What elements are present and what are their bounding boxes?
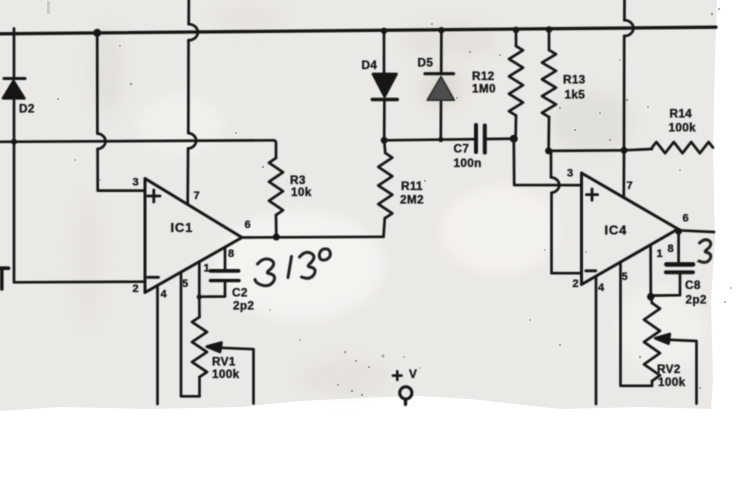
svg-text:7: 7 xyxy=(194,190,200,202)
node: IC4 pin1 / C8 / RV2 xyxy=(647,293,655,301)
wire: RV1 bottom lead xyxy=(198,377,201,396)
resistor R14 zigzag xyxy=(652,142,713,153)
wire: IC4 pin1 stub xyxy=(649,247,652,297)
svg-text:5: 5 xyxy=(182,278,188,290)
svg-text:D2: D2 xyxy=(19,101,35,115)
+V plus sign xyxy=(393,371,402,380)
svg-text:R13: R13 xyxy=(563,72,586,86)
svg-text:100k: 100k xyxy=(212,367,240,381)
wire: D2 branch vertical x=14 rail to pin2 loop xyxy=(13,29,16,283)
node: rail / x=97 vertical xyxy=(93,29,101,37)
node: rail / R12 xyxy=(513,27,520,34)
svg-text:IC4: IC4 xyxy=(605,223,628,238)
node: R3 / IC1 output xyxy=(273,233,280,240)
svg-text:4: 4 xyxy=(161,288,168,300)
node: IC1 pin1 / C2 / RV1 xyxy=(197,294,202,299)
RV2 wiper arrowhead xyxy=(655,334,670,344)
wire: R12 bottom lead xyxy=(514,116,517,139)
svg-text:2p2: 2p2 xyxy=(686,292,707,306)
wire: IC4 pin5 vertical + L to RV2 bottom xyxy=(621,262,653,386)
wire hop: pin2 vertical over pin3 wire xyxy=(551,177,559,193)
wire: R11 bottom lead corner xyxy=(384,218,385,237)
wire: R3 bottom lead xyxy=(275,215,278,237)
wire: C8 bottom connection to pin1 node xyxy=(651,274,680,295)
wire: R14 left lead xyxy=(624,149,652,150)
svg-text:C7: C7 xyxy=(454,142,470,156)
node: R13 bottom line xyxy=(545,147,552,154)
svg-text:2: 2 xyxy=(133,283,139,295)
wire: R13 bottom lead xyxy=(547,117,550,151)
svg-text:R14: R14 xyxy=(670,107,693,121)
wire: C2 bottom connection to pin1 node xyxy=(199,282,225,296)
wire: C7 node down then right to IC4 pin3 xyxy=(514,139,582,186)
handwritten 3130 annotation xyxy=(255,249,330,286)
wire: node line y=140 D4 to C7 left plate xyxy=(384,139,474,140)
wire: R3 top lead corner from y141 line xyxy=(273,140,276,158)
RV1 wiper arrowhead xyxy=(207,343,222,352)
node: D4 / R11 / C7 line xyxy=(381,137,388,144)
wire: IC1 pin2 horizontal xyxy=(14,280,145,283)
svg-text:1: 1 xyxy=(204,263,210,275)
IC1 plus symbol xyxy=(148,190,160,202)
IC1 minus symbol xyxy=(148,276,159,279)
svg-text:2p2: 2p2 xyxy=(233,298,254,312)
svg-text:RV2: RV2 xyxy=(657,362,681,376)
wire hop: x=97.5 over y=141 line xyxy=(97,134,105,150)
svg-text:1k5: 1k5 xyxy=(565,87,586,101)
resistor R3 zigzag xyxy=(269,158,283,215)
potentiometer RV2 zigzag xyxy=(644,303,660,381)
resistor R12 zigzag xyxy=(509,46,523,116)
wire: horizontal line y=141 from left edge to R3 corner xyxy=(0,140,273,142)
wire: R13 top lead from rail xyxy=(548,30,551,51)
wire: D4 branch vertical from rail xyxy=(383,31,386,141)
wire: IC1 pin8 stub to C2 top plate xyxy=(224,247,227,271)
node: rail / D5 xyxy=(438,27,444,33)
wire: R11 top lead to D4 node xyxy=(384,140,385,153)
potentiometer RV1 zigzag xyxy=(192,317,207,377)
node: pin7 / R14 junction xyxy=(621,147,628,154)
wire: IC4 pin2 feedback vertical x=551.5, hops pin3 wire xyxy=(551,151,582,273)
svg-text:D4: D4 xyxy=(362,58,378,72)
wire: IC1 pin5 vertical + L to RV1 bottom xyxy=(181,272,200,396)
wire: top +V rail xyxy=(0,27,716,34)
node: D5 / C7 line xyxy=(438,137,443,142)
node: D2 / y141 line xyxy=(11,139,17,145)
wire: vertical x=97.5 rail to IC1 pin3, hops y141 xyxy=(97,33,145,191)
svg-text:100k: 100k xyxy=(658,375,686,389)
capacitor C2 plates xyxy=(211,279,240,282)
IC4 minus symbol xyxy=(586,269,596,272)
IC4 plus symbol xyxy=(586,189,597,200)
diode D5 (points up, grey scanned fill) xyxy=(425,72,454,75)
capacitor C7 plates xyxy=(474,125,478,152)
wire: node line y=150.6 R13 bottom to pin7 junction xyxy=(549,149,624,152)
wire hop: x=188.2 over y=141 line xyxy=(188,133,196,149)
svg-text:2: 2 xyxy=(573,278,579,290)
wire: C7 right plate to R12 node xyxy=(487,137,514,140)
svg-text:5: 5 xyxy=(622,271,628,283)
wire: IC4 pin7/top vertical x=624, hops rail xyxy=(622,0,625,198)
wire: RV1 wiper arrow shaft and drop xyxy=(209,347,254,403)
svg-text:C2: C2 xyxy=(232,285,248,299)
wire: IC4 pin4 vertical xyxy=(595,276,598,404)
wire: IC1 pin7 vertical from top edge, hops rail and y141 line xyxy=(188,0,189,205)
diode D4 (points down) xyxy=(373,74,397,97)
svg-text:8: 8 xyxy=(668,243,674,255)
svg-text:4: 4 xyxy=(598,282,605,294)
wire: C8 top plate to IC4 output node xyxy=(677,231,680,262)
svg-text:D5: D5 xyxy=(418,55,434,69)
+V terminal circle xyxy=(400,387,412,399)
diode D2 (points up) xyxy=(4,77,25,80)
node: IC4 output / C8 xyxy=(675,228,682,235)
svg-text:7: 7 xyxy=(627,180,633,192)
node: rail / R13 xyxy=(546,26,553,33)
svg-text:V: V xyxy=(409,367,417,381)
wire: IC1 pin1 stub xyxy=(198,262,201,297)
svg-text:1M0: 1M0 xyxy=(472,81,496,95)
svg-text:1: 1 xyxy=(657,248,663,260)
wire: R12 top lead from rail xyxy=(515,30,518,46)
svg-text:6: 6 xyxy=(245,219,251,231)
scan artifact left edge xyxy=(0,268,9,289)
svg-text:100n: 100n xyxy=(454,156,482,170)
op-amp IC4 triangle xyxy=(582,173,679,285)
wire: RV1 top lead to pin1 node xyxy=(198,297,201,317)
svg-text:3: 3 xyxy=(567,167,573,179)
node: C7 / R12 / pin3 xyxy=(510,135,518,143)
wire: IC1 output line pin6 xyxy=(242,235,384,238)
wire hop: x=624 over rail xyxy=(624,20,633,36)
capacitor C8 plates xyxy=(666,270,693,274)
svg-text:8: 8 xyxy=(228,248,234,260)
wire: RV2 wiper arrow shaft and drop xyxy=(658,339,697,403)
svg-text:3: 3 xyxy=(133,176,139,188)
node: rail / D4 xyxy=(381,28,387,34)
svg-text:6: 6 xyxy=(683,212,689,224)
wire: D5 branch vertical from rail xyxy=(439,30,442,139)
handwritten 3 near IC4 output xyxy=(699,240,711,263)
wire: IC4 output line pin6 xyxy=(678,230,714,232)
op-amp IC1 triangle xyxy=(145,179,242,293)
svg-text:IC1: IC1 xyxy=(171,220,194,235)
wire: IC1 pin4 vertical xyxy=(156,285,159,404)
scan speckles xyxy=(57,8,732,396)
svg-text:10k: 10k xyxy=(291,185,312,199)
svg-text:R11: R11 xyxy=(401,179,423,193)
resistor R11 zigzag xyxy=(378,153,392,218)
wire hop: x=188.5 over rail xyxy=(189,24,198,40)
svg-text:2M2: 2M2 xyxy=(400,193,424,207)
resistor R13 zigzag xyxy=(542,50,556,117)
wire: RV2 top lead to pin1 node xyxy=(651,297,652,303)
svg-text:C8: C8 xyxy=(685,278,701,292)
wire: RV2 bottom lead xyxy=(651,381,654,386)
svg-text:100k: 100k xyxy=(669,121,697,135)
